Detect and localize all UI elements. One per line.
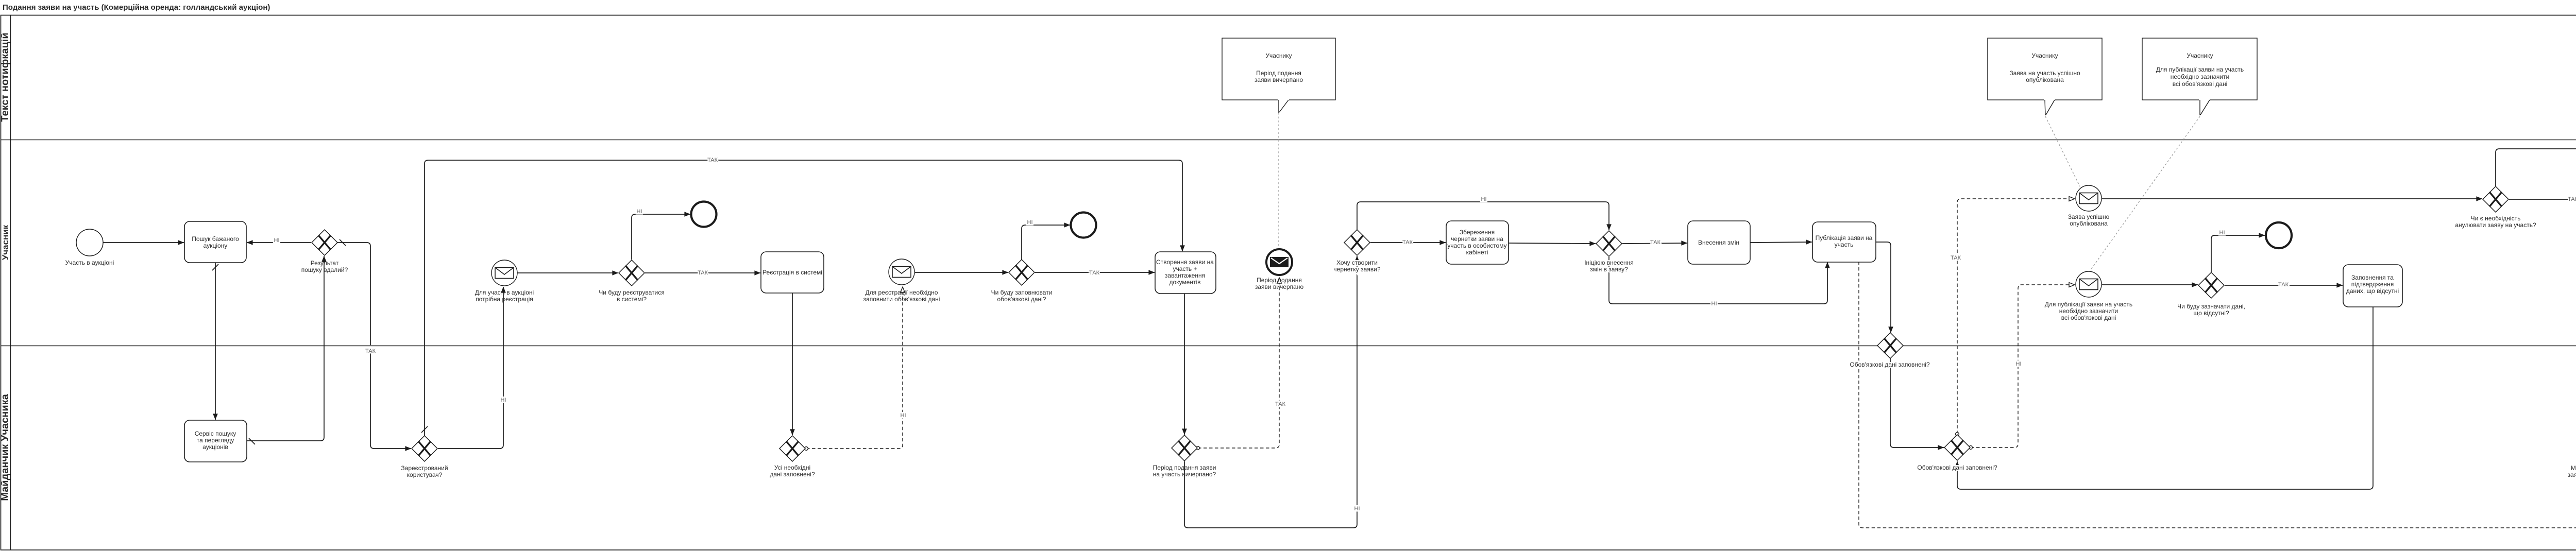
svg-text:документів: документів [1169,279,1200,286]
gateway GB: Період подання заяви на участь вичерпано? [1153,435,1216,478]
wire S21: Ініціюю внесення змін НІ to Публікація заяви bottom [1609,257,1827,307]
svg-text:Пошук бажаного: Пошук бажаного [192,235,239,243]
svg-text:заяви вичерпано: заяви вичерпано [1255,283,1304,290]
svg-text:Хочу створити: Хочу створити [1336,259,1378,266]
association N3 to event Для публікації заяви на участь [2091,116,2200,270]
svg-text:участь: участь [1835,241,1854,248]
svg-text:Період подання: Період подання [1256,70,1301,77]
svg-text:Усі необхідні: Усі необхідні [774,464,810,471]
wire S16: Період подання вичерпано? НІ loop up to Хочу створити чернетку заяви? [1184,256,1360,528]
notification N3: Для публікації заяви на участь необхідно зазначити всі обов'язкові дані [2142,38,2257,115]
svg-text:ТАК: ТАК [2278,282,2289,288]
wire S24: Обов'язкові дані заповнені? down to Обов'язкові дані заповнені? (lane 3) [1890,358,1944,447]
wire S32: Заповнення та підтвердження даних down-left to Обов'язкові дані заповнені? (lane 3) [1957,307,2373,489]
task T5: Внесення змін [1688,221,1750,264]
gateway GA: Усі необхідні дані заповнені? [770,436,815,478]
svg-text:участь +: участь + [1173,265,1197,272]
message throw event: Період подання заяви вичерпано [1255,249,1304,290]
svg-text:потрібна реєстрація: потрібна реєстрація [476,296,533,303]
svg-text:НІ: НІ [2016,361,2022,367]
gateway G5: Хочу створити чернетку заяви? [1333,230,1380,273]
svg-text:опублікована: опублікована [2026,76,2064,83]
svg-text:Реєстрація в системі: Реєстрація в системі [762,269,822,276]
gateway G11: Можливість анулювання заяви на участь присутня? [2568,434,2576,478]
wire S5: gateway Результат пошуку вдалий? ТАК to Зареєстрований користувач? [337,239,411,449]
svg-text:Сервіс пошуку: Сервіс пошуку [195,430,236,437]
lane separator 1 [1,140,2576,141]
wire S26: Чи є необхідність анулювати НІ over to Чи є необхідність внесення змін [2496,146,2576,242]
svg-text:підтвердження: підтвердження [2351,281,2394,288]
message catch event: Заява успішно опублікована [2068,185,2110,227]
task T3: Створення заяви на участь + завантаження документів [1155,252,1216,294]
end event E3 [2266,222,2292,248]
gateway G3: Чи буду заповнювати обов'язкові дані? [991,260,1053,303]
wire S9: Чи буду реєструватися НІ to end event [632,209,690,260]
svg-text:та перегляду: та перегляду [197,437,234,444]
wire S13: Чи буду заповнювати НІ to end event [1022,219,1070,260]
svg-text:НІ: НІ [2219,230,2225,236]
svg-text:НІ: НІ [274,237,280,244]
svg-text:Заява успішно: Заява успішно [2068,213,2110,220]
svg-text:НІ: НІ [1711,301,1717,307]
svg-text:заяви на участь присутня?: заяви на участь присутня? [2568,471,2576,478]
wire S18: Хочу створити чернетку НІ up over to Ініціюю внесення змін [1357,196,1609,230]
wire S30: Чи буду зазначати НІ to end event [2211,230,2265,272]
svg-text:заяви вичерпано: заяви вичерпано [1255,76,1303,83]
wire S12: Для реєстрації необхідно to Чи буду заповнювати [915,272,1008,273]
svg-text:аукціонів: аукціонів [202,443,228,451]
svg-text:НІ: НІ [501,397,506,403]
svg-text:всі обов'язкові дані: всі обов'язкові дані [2173,80,2228,88]
svg-text:Збереження: Збереження [1460,229,1495,236]
svg-text:Для реєстрації необхідно: Для реєстрації необхідно [866,289,938,296]
svg-text:Для публікації заяви на участь: Для публікації заяви на участь [2045,301,2132,308]
svg-text:що відсутні?: що відсутні? [2193,309,2229,317]
svg-text:Учаснику: Учаснику [2187,52,2213,59]
svg-text:ТАК: ТАК [1650,239,1661,246]
svg-text:ТАК: ТАК [1275,401,1286,407]
svg-text:Можливість анулювання: Можливість анулювання [2571,464,2576,472]
svg-text:Створення заяви на: Створення заяви на [1156,259,1214,266]
wire S20: Ініціюю внесення змін ТАК to Внесення змін [1622,239,1687,246]
svg-text:Для публікації заяви на участь: Для публікації заяви на участь [2156,66,2244,73]
svg-text:НІ: НІ [1027,219,1033,226]
svg-text:Чи є необхідність: Чи є необхідність [2471,215,2521,222]
svg-text:Зареєстрований: Зареєстрований [401,464,448,472]
svg-text:чернетки заяви на: чернетки заяви на [1451,235,1503,243]
svg-text:даних, що відсутні: даних, що відсутні [2346,287,2399,295]
svg-text:Для участі в аукціоні: Для участі в аукціоні [475,289,534,296]
wire S10: Чи буду реєструватися ТАК to Реєстрація в системі [645,270,760,276]
wire S22: Внесення змін to Публікація заяви на участь [1750,242,1812,243]
association N2 to event Заява успішно опублікована [2045,116,2080,186]
message M3: Обов'язкові дані заповнені? ТАК to Заява успішно опублікована [1951,199,2075,434]
svg-text:Період подання: Період подання [1257,277,1302,284]
task T4: Збереження чернетки заяви на участь в особистому кабінеті [1446,221,1509,264]
svg-text:ТАК: ТАК [1089,270,1100,276]
svg-text:Обов'язкові дані заповнені?: Обов'язкові дані заповнені? [1850,361,1930,368]
wire S8: Для участі в аукціоні to Чи буду реєструватися [517,272,618,273]
svg-text:Ініціюю внесення: Ініціюю внесення [1584,259,1634,266]
message M1: Усі необхідні дані заповнені? НІ to Для реєстрації необхідно [806,287,906,449]
svg-text:Внесення змін: Внесення змін [1698,239,1739,246]
start event: Участь в аукціоні [65,229,114,266]
wire S1: start to Пошук бажаного аукціону [103,242,184,243]
gateway GL1: Обов'язкові дані заповнені? (lane border) [1850,333,1930,368]
svg-text:анулювати заяву на участь?: анулювати заяву на участь? [2455,221,2536,229]
svg-text:ТАК: ТАК [2568,196,2576,202]
svg-text:Чи буду реєструватися: Чи буду реєструватися [599,289,664,296]
wire S23: Публікація заяви to Обов'язкові дані заповнені? (lane border gateway) [1876,242,1891,333]
svg-text:ТАК: ТАК [1402,239,1413,246]
svg-text:Результат: Результат [311,260,339,267]
message M4: Обов'язкові дані заповнені? НІ to Для публікації заяви [1971,285,2075,447]
svg-text:ТАК: ТАК [1951,255,1961,261]
gateway G8: Чи є необхідність анулювати заяву на участь? [2455,186,2536,229]
svg-text:дані заповнені?: дані заповнені? [770,471,815,478]
wire S14: Чи буду заповнювати ТАК to Створення заяви [1035,270,1155,276]
task T2: Реєстрація в системі [761,252,824,293]
gateway G7: Чи буду зазначати дані, що відсутні? [2177,272,2245,317]
wire S6: Зареєстрований користувач? ТАК up to Створення заяви (default tick) [421,157,1182,436]
svg-text:кабінеті: кабінеті [1466,249,1488,256]
svg-text:пошуку вдалий?: пошуку вдалий? [301,266,348,273]
task T7: Заповнення та підтвердження даних, що відсутні [2343,265,2402,307]
task T10: Сервіс пошуку та перегляду аукціонів [184,420,247,462]
svg-text:НІ: НІ [637,209,642,215]
svg-text:Заява на участь успішно: Заява на участь успішно [2009,70,2080,77]
gateway G1: Результат пошуку вдалий? [301,230,348,273]
wire S25: Заява успішно опублікована to Чи є необхідність анулювати [2102,198,2482,199]
svg-text:аукціону: аукціону [204,242,228,249]
wire S27: Чи є необхідність анулювати ТАК to Анулювання заяви [2509,196,2576,225]
svg-text:Період подання заяви: Період подання заяви [1153,464,1216,471]
wire S11: Реєстрація в системі down to Усі необхідні дані заповнені? [792,292,793,435]
association N1 to event Період подання заяви вичерпано [1278,113,1279,246]
svg-text:опублікована: опублікована [2070,220,2108,227]
svg-text:ТАК: ТАК [365,348,376,354]
wire S31: Чи буду зазначати ТАК to Заповнення та підтвердження даних [2225,282,2343,288]
svg-text:необхідно зазначити: необхідно зазначити [2059,307,2119,315]
svg-text:ТАК: ТАК [698,270,708,276]
svg-text:в системі?: в системі? [617,296,647,303]
svg-text:користувач?: користувач? [407,471,443,478]
message M2: Період подання вичерпано? ТАК to event Період подання заяви вичерпано [1198,278,1286,448]
svg-text:обов'язкові дані?: обов'язкові дані? [997,296,1046,303]
svg-text:Учасник: Учасник [1,225,10,260]
end event E1 [691,202,717,227]
svg-text:Учаснику: Учаснику [2031,52,2058,59]
svg-text:Публікація заяви на: Публікація заяви на [1816,234,1873,242]
svg-text:НІ: НІ [1481,196,1487,202]
svg-text:участь в особистому: участь в особистому [1447,242,1506,249]
end event E2 [1071,213,1096,238]
svg-text:Майданчик Учасника: Майданчик Учасника [0,393,11,501]
wire S3: Сервіс пошуку to gateway Результат пошуку вдалий? [247,256,324,444]
wire S17: Хочу створити чернетку ТАК to Збереження чернетки [1370,239,1446,246]
notification N2: Заява на участь успішно опублікована [1988,38,2102,115]
gateway GL2: Обов'язкові дані заповнені? (lane 3) [1917,435,1997,471]
gateway G2: Чи буду реєструватися в системі? [599,260,664,303]
svg-text:заповнити обов'язкові дані: заповнити обов'язкові дані [863,296,940,303]
notification N1: Період подання заяви вичерпано [1222,38,1335,113]
svg-text:ТАК: ТАК [707,157,718,163]
svg-text:НІ: НІ [1354,506,1360,512]
wire S7: Зареєстрований користувач? НІ to Для участі в аукціоні потрібна реєстрація [438,287,506,449]
wire S4: gateway Результат пошуку вдалий? НІ back to Пошук бажаного аукціону [247,237,311,244]
svg-text:чернетку заяви?: чернетку заяви? [1333,266,1380,273]
message catch event: Для участі в аукціоні потрібна реєстрація [475,260,534,303]
wire S2: Пошук бажаного аукціону to Сервіс пошуку (default tick) [212,263,218,420]
svg-text:Подання заяви на участь (Комер: Подання заяви на участь (Комерційна орен… [3,3,270,12]
svg-text:на участь вичерпано?: на участь вичерпано? [1153,471,1216,478]
wire S29: Для публікації заяви to Чи буду зазначати дані [2102,284,2198,285]
task T1: Пошук бажаного аукціону [184,221,246,263]
message M9: Публікація заяви на участь to timer Нагадування [1859,262,2576,528]
lane separator 2 [1,346,2576,347]
svg-text:завантаження: завантаження [1165,272,1205,279]
svg-text:Чи буду заповнювати: Чи буду заповнювати [991,289,1053,296]
wire S15: Створення заяви down to Період подання заяви на участь вичерпано? [1184,294,1185,435]
svg-text:всі обов'язкові дані: всі обов'язкові дані [2061,314,2116,321]
svg-text:Обов'язкові дані заповнені?: Обов'язкові дані заповнені? [1917,464,1997,471]
svg-text:Чи буду зазначати дані,: Чи буду зазначати дані, [2177,303,2245,310]
svg-text:НІ: НІ [901,412,906,419]
gateway G6: Ініціюю внесення змін в заяву? [1584,231,1634,273]
svg-text:Заповнення та: Заповнення та [2351,274,2394,281]
gateway G10: Зареєстрований користувач? [401,436,448,478]
svg-text:Участь в аукціоні: Участь в аукціоні [65,259,114,266]
message catch event: Для публікації заяви на участь необхідно зазначити всі обов'язкові дані [2045,271,2132,321]
svg-text:необхідно зазначити: необхідно зазначити [2171,73,2230,80]
svg-text:Текст нотифкацій: Текст нотифкацій [0,32,11,122]
wire S19: Збереження чернетки to Ініціюю внесення змін [1509,243,1596,244]
message catch event: Для реєстрації необхідно заповнити обов'язкові дані [863,259,940,303]
task T6: Публікація заяви на участь [1812,222,1876,262]
svg-text:змін в заяву?: змін в заяву? [1590,266,1628,273]
svg-text:Учаснику: Учаснику [1265,52,1292,59]
